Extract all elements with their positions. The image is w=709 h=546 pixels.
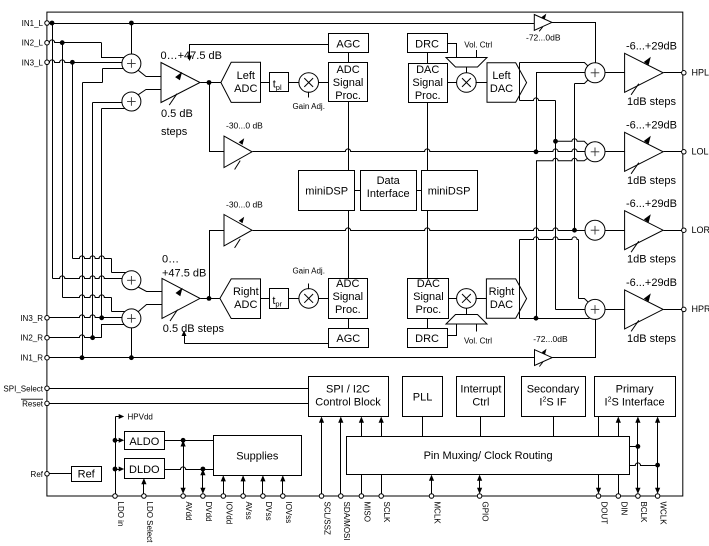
- svg-text:1dB steps: 1dB steps: [627, 254, 676, 266]
- svg-text:DAC: DAC: [490, 83, 513, 95]
- svg-text:SPI_Select: SPI_Select: [3, 384, 43, 393]
- svg-text:Left: Left: [492, 70, 510, 82]
- svg-text:Pin Muxing/ Clock Routing: Pin Muxing/ Clock Routing: [424, 450, 553, 462]
- svg-text:+47.5 dB: +47.5 dB: [162, 268, 206, 280]
- svg-text:DLDO: DLDO: [129, 464, 160, 476]
- svg-text:Interface: Interface: [367, 188, 410, 200]
- svg-text:IN2_L: IN2_L: [22, 39, 44, 48]
- svg-text:Ctrl: Ctrl: [472, 397, 489, 409]
- svg-text:Interrupt: Interrupt: [460, 384, 501, 396]
- svg-text:1dB steps: 1dB steps: [627, 333, 676, 345]
- svg-text:GPIO: GPIO: [481, 502, 490, 522]
- svg-text:0…: 0…: [162, 254, 179, 266]
- svg-text:Data: Data: [377, 175, 401, 187]
- svg-text:-6...+29dB: -6...+29dB: [626, 41, 677, 53]
- svg-text:ADC: ADC: [336, 64, 359, 76]
- svg-text:Supplies: Supplies: [236, 450, 279, 462]
- svg-text:LOR: LOR: [692, 225, 709, 235]
- svg-text:Left: Left: [237, 70, 255, 82]
- svg-text:ALDO: ALDO: [129, 436, 159, 448]
- svg-text:IOVss: IOVss: [284, 502, 293, 524]
- svg-text:miniDSP: miniDSP: [305, 186, 348, 198]
- svg-text:steps: steps: [161, 126, 188, 138]
- svg-text:AGC: AGC: [336, 38, 360, 50]
- svg-text:Reset: Reset: [22, 399, 44, 408]
- svg-text:0…+47.5 dB: 0…+47.5 dB: [161, 50, 222, 62]
- svg-text:BCLK: BCLK: [639, 502, 648, 524]
- svg-text:Ref: Ref: [78, 469, 96, 481]
- svg-text:SCL/SSZ: SCL/SSZ: [323, 502, 332, 535]
- svg-text:Proc.: Proc.: [416, 304, 442, 316]
- svg-text:Proc.: Proc.: [415, 90, 441, 102]
- svg-text:DVdd: DVdd: [204, 502, 213, 522]
- svg-text:Signal: Signal: [333, 77, 364, 89]
- svg-text:DAC: DAC: [490, 299, 513, 311]
- svg-text:Signal: Signal: [333, 291, 364, 303]
- svg-text:Secondary: Secondary: [527, 384, 580, 396]
- svg-text:Right: Right: [489, 286, 515, 298]
- svg-text:Ref: Ref: [31, 470, 44, 479]
- svg-text:0.5 dB steps: 0.5 dB steps: [163, 323, 225, 335]
- svg-text:AVdd: AVdd: [184, 502, 193, 521]
- svg-text:SPI / I2C: SPI / I2C: [326, 384, 370, 396]
- svg-text:SDA/MOSI: SDA/MOSI: [342, 502, 351, 541]
- svg-text:Primary: Primary: [616, 384, 654, 396]
- svg-text:DRC: DRC: [415, 333, 439, 345]
- svg-text:LDO in: LDO in: [116, 502, 125, 527]
- svg-text:1dB steps: 1dB steps: [627, 96, 676, 108]
- svg-text:I2S Interface: I2S Interface: [605, 397, 665, 409]
- svg-text:IOVdd: IOVdd: [224, 502, 233, 525]
- svg-text:ADC: ADC: [234, 83, 257, 95]
- svg-text:0.5 dB: 0.5 dB: [161, 108, 193, 120]
- svg-text:DOUT: DOUT: [600, 502, 609, 525]
- svg-text:ADC: ADC: [336, 278, 359, 290]
- svg-text:MCLK: MCLK: [433, 502, 442, 525]
- svg-text:LOL: LOL: [692, 147, 709, 157]
- svg-text:DIN: DIN: [619, 502, 628, 516]
- svg-text:Proc.: Proc.: [335, 304, 361, 316]
- svg-text:HPL: HPL: [692, 68, 709, 78]
- svg-text:-30...0 dB: -30...0 dB: [226, 200, 263, 210]
- svg-text:Control Block: Control Block: [315, 397, 381, 409]
- svg-text:WCLK: WCLK: [659, 502, 668, 526]
- svg-text:-72...0dB: -72...0dB: [526, 33, 561, 43]
- svg-text:DAC: DAC: [416, 64, 439, 76]
- svg-text:-6...+29dB: -6...+29dB: [626, 277, 677, 289]
- svg-text:PLL: PLL: [413, 392, 433, 404]
- svg-text:-30...0 dB: -30...0 dB: [226, 121, 263, 131]
- svg-text:IN1_L: IN1_L: [22, 19, 44, 28]
- svg-text:Gain Adj.: Gain Adj.: [292, 102, 324, 111]
- svg-text:IN1_R: IN1_R: [20, 354, 43, 363]
- svg-text:LDO Select: LDO Select: [145, 502, 154, 544]
- svg-text:ADC: ADC: [234, 299, 257, 311]
- svg-text:Proc.: Proc.: [335, 90, 361, 102]
- svg-text:Right: Right: [233, 286, 259, 298]
- svg-text:IN3_R: IN3_R: [20, 314, 43, 323]
- svg-text:AGC: AGC: [336, 333, 360, 345]
- svg-text:IN2_R: IN2_R: [20, 334, 43, 343]
- svg-text:AVss: AVss: [244, 502, 253, 520]
- svg-text:DRC: DRC: [415, 38, 439, 50]
- svg-text:Gain Adj.: Gain Adj.: [292, 266, 324, 275]
- svg-text:HPR: HPR: [692, 304, 709, 314]
- svg-text:-6...+29dB: -6...+29dB: [626, 120, 677, 132]
- svg-text:Signal: Signal: [413, 291, 444, 303]
- svg-text:-6...+29dB: -6...+29dB: [626, 198, 677, 210]
- svg-text:Signal: Signal: [412, 77, 443, 89]
- svg-text:HPVdd: HPVdd: [128, 413, 153, 422]
- svg-text:1dB steps: 1dB steps: [627, 175, 676, 187]
- svg-text:SCLK: SCLK: [382, 502, 391, 524]
- svg-text:miniDSP: miniDSP: [428, 186, 471, 198]
- svg-text:MISO: MISO: [362, 502, 371, 522]
- svg-text:IN3_L: IN3_L: [22, 58, 44, 67]
- svg-text:Vol. Ctrl: Vol. Ctrl: [464, 40, 492, 49]
- svg-text:-72...0dB: -72...0dB: [533, 334, 568, 344]
- svg-text:Vol. Ctrl: Vol. Ctrl: [464, 336, 492, 345]
- svg-text:DVss: DVss: [264, 502, 273, 521]
- svg-text:DAC: DAC: [417, 278, 440, 290]
